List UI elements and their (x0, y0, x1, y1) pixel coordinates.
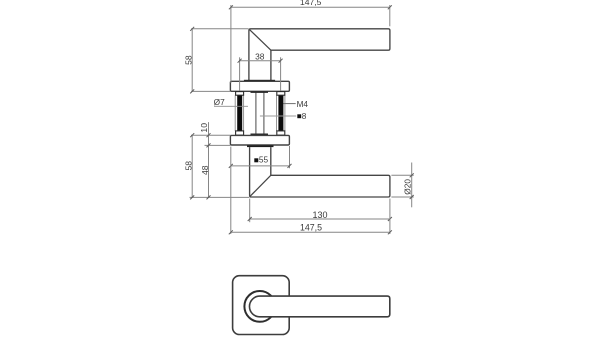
spindle top cap (251, 91, 269, 93)
upper lever chamfer edge (249, 29, 271, 50)
lower collar (247, 145, 274, 147)
svg-text:10: 10 (199, 123, 209, 133)
svg-text:M4: M4 (297, 100, 309, 109)
dimension 10 / 48 shared line left (190, 122, 250, 197)
right bolt sleeve lines (276, 95, 278, 131)
dimension 58 top left (191, 29, 248, 92)
svg-text:48: 48 (200, 165, 210, 175)
dimension 130 (250, 199, 390, 223)
left bolt sleeve lines (234, 95, 236, 131)
svg-text:55: 55 (259, 154, 269, 164)
svg-text:38: 38 (255, 51, 265, 61)
dimension Ø20 right (391, 163, 413, 208)
front view square rose (233, 276, 290, 335)
left bolt bottom nut (236, 131, 244, 135)
spindle bottom cap (251, 134, 269, 136)
svg-text:8: 8 (302, 112, 307, 121)
left bolt top nut (236, 92, 244, 96)
dimension 38 (240, 57, 281, 91)
upper collar (244, 80, 275, 82)
svg-text:58: 58 (184, 161, 194, 171)
lower rose plate (230, 135, 289, 145)
right bolt bottom nut (277, 131, 285, 135)
upper rose plate (230, 81, 289, 91)
svg-text:130: 130 (312, 210, 327, 220)
dimension square 55 (231, 146, 290, 168)
right bolt top nut (277, 92, 285, 96)
front view rose collar circle (244, 291, 275, 322)
dimension 58 bottom left (191, 135, 193, 197)
lower lever chamfer edge (250, 175, 271, 196)
left bolt thread into rose (239, 135, 241, 141)
right bolt thread into rose (280, 135, 282, 141)
front view lever bar (249, 296, 389, 317)
svg-text:147,5: 147,5 (300, 223, 322, 233)
right bolt shaft M4 (278, 94, 283, 132)
lower lever outline (250, 147, 390, 197)
upper lever outline (249, 29, 390, 80)
svg-text:Ø7: Ø7 (214, 97, 225, 107)
svg-text:147,5: 147,5 (300, 0, 322, 7)
left bolt shaft M4 (237, 94, 242, 132)
label square 8 with leader (260, 115, 296, 117)
label M4 with leader (283, 103, 295, 105)
spindle square 8mm (255, 92, 257, 135)
svg-text:Ø20: Ø20 (402, 179, 412, 195)
dimension 147,5 top (231, 5, 390, 83)
dimension 147,5 bottom (231, 147, 390, 234)
svg-text:58: 58 (184, 55, 194, 65)
